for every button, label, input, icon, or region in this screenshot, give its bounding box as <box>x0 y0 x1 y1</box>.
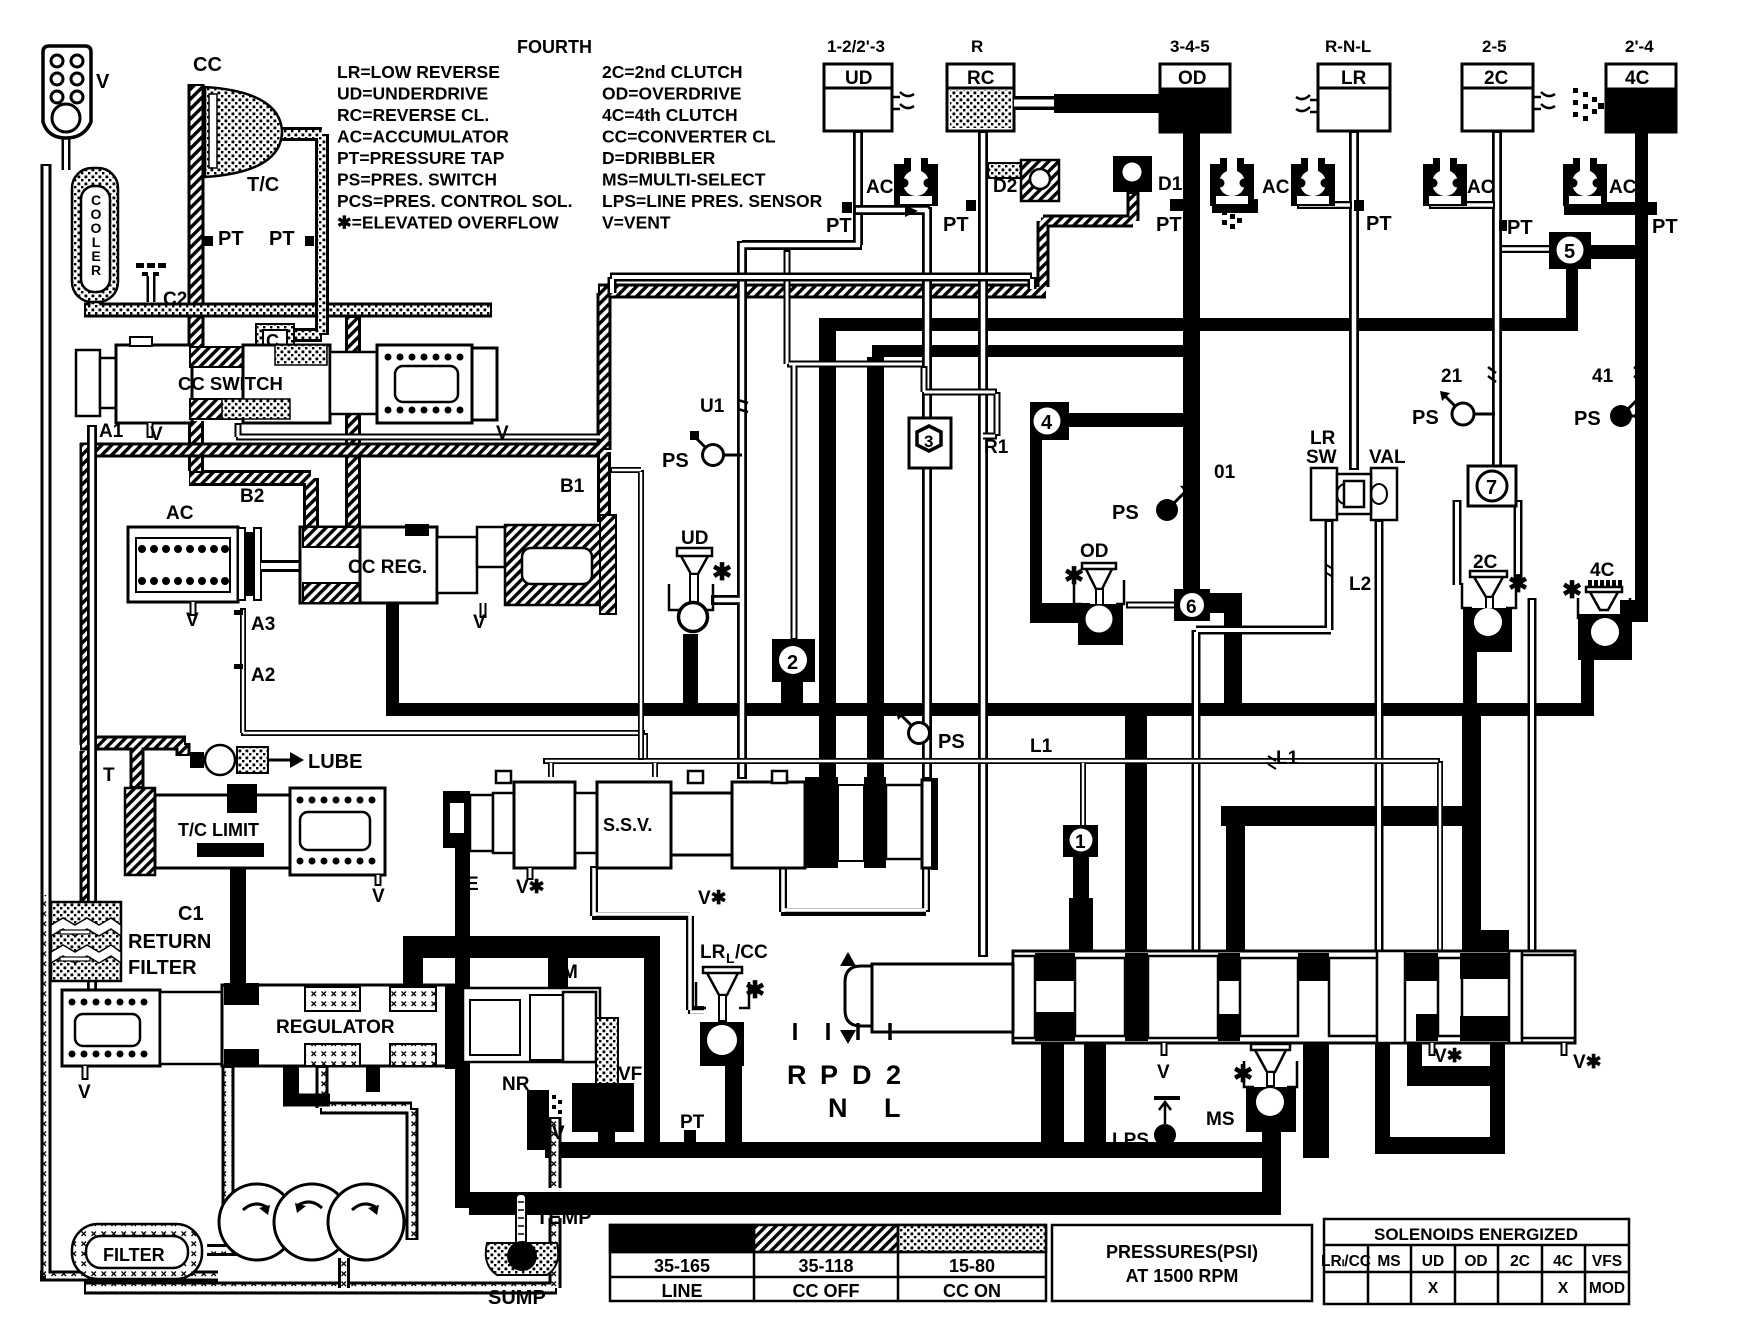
solenoid MS <box>1206 1044 1297 1132</box>
svg-text:LUBE: LUBE <box>308 751 362 773</box>
torque converter dome <box>193 54 314 250</box>
wire CC SWITCH bottom port line <box>236 423 600 437</box>
legend column 1 <box>337 62 572 233</box>
wire 2C clutch line <box>1492 131 1502 470</box>
wire 7 loop pipes <box>1457 500 1518 585</box>
spool chamber walls <box>1013 951 1575 1043</box>
wire UD solenoid drop <box>683 634 698 706</box>
svg-text:CC SWITCH: CC SWITCH <box>178 373 283 394</box>
svg-text:PT: PT <box>218 228 244 250</box>
svg-text:V=VENT: V=VENT <box>602 213 671 233</box>
svg-text:PCS: PCS <box>578 1099 617 1120</box>
wire 4 line down to OD solenoid <box>1030 436 1042 616</box>
wire bus D main line <box>386 703 1594 716</box>
svg-text:REGULATOR: REGULATOR <box>276 1017 395 1038</box>
wire 4C AC shelf <box>1564 202 1657 215</box>
wire M line <box>403 936 660 958</box>
accumulator AC (2C) <box>1423 158 1467 206</box>
svg-text:2C: 2C <box>1484 68 1509 89</box>
wire C2 speckled line <box>84 294 492 310</box>
svg-text:R-N-L: R-N-L <box>1325 37 1371 56</box>
wire bus B horizontal <box>819 318 1578 331</box>
wire bus E horizontal <box>1221 806 1481 826</box>
svg-text:MS: MS <box>1377 1253 1400 1270</box>
pressures table <box>610 1225 1312 1301</box>
svg-text:SW: SW <box>1306 447 1337 468</box>
svg-text:/CC: /CC <box>735 942 768 963</box>
svg-text:V✱: V✱ <box>516 877 545 898</box>
bottom ports <box>1164 1043 1564 1056</box>
svg-text:D2: D2 <box>993 176 1017 197</box>
rod <box>845 966 1013 1026</box>
svg-text:2C=2nd CLUTCH: 2C=2nd CLUTCH <box>602 62 743 82</box>
wire 2C solenoid drop to bus D <box>1463 650 1477 706</box>
wire PT tick on bottom bus <box>684 1130 696 1142</box>
node 1 <box>1063 825 1098 857</box>
wire LR accumulator shelf <box>1297 201 1352 209</box>
legend column 2 <box>602 62 823 233</box>
outline pipes <box>40 131 1551 1276</box>
return filter <box>51 902 211 981</box>
wire long hatched line lower left <box>80 291 1046 905</box>
svg-text:AC: AC <box>866 177 894 198</box>
valve T/C LIMIT <box>103 765 385 907</box>
wire 5 square drop to bus B <box>1566 267 1578 324</box>
clutch UD <box>824 37 914 131</box>
svg-text:L: L <box>726 950 735 966</box>
wire L1 thin line <box>543 761 1440 955</box>
solenoid PCS <box>552 1018 642 1144</box>
svg-text:FILTER: FILTER <box>128 957 197 979</box>
wire A1 line <box>87 425 97 995</box>
svg-text:T/C LIMIT: T/C LIMIT <box>178 820 259 840</box>
svg-text:RETURN: RETURN <box>128 931 211 953</box>
svg-text:PT: PT <box>1366 213 1392 235</box>
node 5 <box>1549 232 1591 269</box>
svg-text:MS=MULTI-SELECT: MS=MULTI-SELECT <box>602 170 766 190</box>
svg-text:✱: ✱ <box>712 559 732 586</box>
valve CC REG <box>261 476 616 633</box>
clutch RC <box>947 37 1014 131</box>
svg-text:3-4-5: 3-4-5 <box>1170 37 1210 56</box>
svg-text:PS: PS <box>938 731 965 753</box>
svg-text:PT=PRESSURE TAP: PT=PRESSURE TAP <box>337 148 505 168</box>
dribbler spray under OD accumulator <box>1222 210 1242 229</box>
wire bus D drop to manual valve <box>1125 712 1147 955</box>
svg-text:U1: U1 <box>700 396 725 417</box>
svg-text:FILTER: FILTER <box>103 1245 165 1265</box>
svg-text:FOURTH: FOURTH <box>517 37 592 57</box>
black lands <box>1035 953 1509 1041</box>
svg-text:B1: B1 <box>560 476 585 497</box>
switch PS 41 <box>1574 366 1644 430</box>
wire OD accumulator shelf (black) <box>1212 199 1258 213</box>
svg-text:L: L <box>884 1093 901 1123</box>
switch PS near U1 <box>662 431 742 472</box>
svg-text:AC: AC <box>1467 177 1495 198</box>
valve LR SW VAL <box>1306 428 1406 520</box>
svg-text:V: V <box>78 1082 91 1103</box>
svg-text:PT: PT <box>826 215 852 237</box>
dribbler D2 <box>993 160 1059 201</box>
svg-text:UD=UNDERDRIVE: UD=UNDERDRIVE <box>337 84 488 104</box>
wire upper mid outline run <box>610 277 1032 293</box>
hatched converter-off circuit <box>80 84 1133 905</box>
svg-text:C1: C1 <box>178 903 204 925</box>
svg-text:C2: C2 <box>163 289 187 310</box>
svg-text:LINE: LINE <box>661 1281 702 1301</box>
wire 4C solenoid riser from bus D <box>1581 648 1594 710</box>
wire bus C horizontal <box>872 345 1190 357</box>
svg-text:1-2/2'-3: 1-2/2'-3 <box>827 37 885 56</box>
svg-text:V: V <box>496 423 509 444</box>
wire 5 square link <box>1502 245 1551 253</box>
svg-text:6: 6 <box>1186 597 1197 618</box>
svg-text:OD: OD <box>1178 68 1207 89</box>
black line-pressure network <box>230 130 1657 1215</box>
pump circles <box>219 1184 404 1260</box>
svg-text:PT: PT <box>269 228 295 250</box>
svg-text:✱=ELEVATED OVERFLOW: ✱=ELEVATED OVERFLOW <box>337 213 559 233</box>
solenoid OD <box>1064 541 1124 645</box>
svg-text:R1: R1 <box>984 437 1009 458</box>
solenoid 4C <box>1562 560 1648 660</box>
svg-text:4C: 4C <box>1590 560 1615 581</box>
svg-text:V✱: V✱ <box>698 888 727 909</box>
node 7 <box>1468 466 1516 506</box>
clutch OD <box>1160 37 1230 132</box>
svg-text:S.S.V.: S.S.V. <box>603 815 652 835</box>
suction xhatch piping <box>84 1066 557 1288</box>
gear ticks <box>795 1023 890 1040</box>
pipe RC to OD <box>1014 96 1060 110</box>
wire UD clutch line <box>711 131 862 779</box>
solenoid LRL/CC <box>696 942 768 1066</box>
svg-text:UD: UD <box>845 68 872 89</box>
svg-text:35-118: 35-118 <box>798 1256 853 1276</box>
svg-text:LR: LR <box>700 942 726 963</box>
svg-text:R: R <box>91 262 101 278</box>
wire bus B left drop to SSV <box>819 318 836 793</box>
wire lower bus riser to MS <box>1262 1130 1281 1205</box>
svg-text:01: 01 <box>1214 462 1236 483</box>
clutch 2C <box>1462 37 1555 131</box>
wire manual valve bottom drops to bus <box>1041 1043 1064 1143</box>
valve REGULATOR <box>62 962 600 1103</box>
wire PCS drop <box>598 1130 615 1144</box>
valve manual selector <box>680 951 1602 1133</box>
svg-text:4C: 4C <box>1625 68 1650 89</box>
filter capsule <box>72 1224 202 1279</box>
svg-text:✱: ✱ <box>1508 571 1528 598</box>
svg-text:PS=PRES. SWITCH: PS=PRES. SWITCH <box>337 170 497 190</box>
solenoid 2C <box>1462 552 1528 652</box>
dribbler D1 <box>1113 156 1183 195</box>
svg-text:AC: AC <box>1609 177 1637 198</box>
wire A2 A3 thin line <box>241 608 645 761</box>
svg-text:LR: LR <box>1310 428 1336 449</box>
dribbler spray left of 4C <box>1573 88 1604 121</box>
wire C1 drop from T/C LIMIT <box>230 857 246 988</box>
svg-text:OD: OD <box>1464 1253 1487 1270</box>
svg-text:35-165: 35-165 <box>654 1256 710 1276</box>
svg-text:P: P <box>820 1060 838 1090</box>
svg-text:A2: A2 <box>251 665 275 686</box>
svg-text:21: 21 <box>1441 366 1463 387</box>
svg-text:LRₗ/CC: LRₗ/CC <box>1321 1253 1371 1270</box>
svg-text:PT: PT <box>943 214 969 236</box>
accumulator AC (4C) <box>1563 158 1607 206</box>
wire upper bottom bus <box>545 1142 1281 1158</box>
svg-text:V✱: V✱ <box>1573 1052 1602 1073</box>
svg-text:UD: UD <box>1422 1253 1444 1270</box>
accumulator AC (LR) <box>1291 158 1335 206</box>
node 4 <box>1030 402 1069 440</box>
svg-text:2C: 2C <box>1510 1253 1530 1270</box>
vent accumulator top left <box>43 46 110 170</box>
svg-text:SUMP: SUMP <box>488 1287 546 1309</box>
svg-text:TEMP: TEMP <box>536 1207 592 1229</box>
arrow on UD accumulator branch <box>905 205 918 217</box>
svg-text:L1: L1 <box>1276 748 1299 769</box>
wire manual valve right vent loop <box>1375 1037 1390 1149</box>
node RC to D2 connector <box>988 163 1023 178</box>
wire bus E left drop to manual valve <box>1226 820 1245 955</box>
wire LRL/CC solenoid drop <box>725 1044 742 1156</box>
svg-text:PS: PS <box>1574 408 1601 430</box>
svg-text:PT: PT <box>680 1112 705 1133</box>
svg-text:PRESSURES(PSI): PRESSURES(PSI) <box>1106 1242 1258 1262</box>
accumulator AC (UD) <box>894 158 938 206</box>
svg-text:2: 2 <box>787 652 798 674</box>
svg-text:L2: L2 <box>1349 574 1371 595</box>
svg-text:SOLENOIDS ENERGIZED: SOLENOIDS ENERGIZED <box>1374 1225 1578 1244</box>
wire bus C left drop to SSV <box>867 357 884 789</box>
wire LR SW VAL right drop <box>1375 520 1384 957</box>
svg-text:PS: PS <box>1412 407 1439 429</box>
wire L2 pipe <box>1196 520 1331 957</box>
wire CC hatched bar <box>188 84 205 347</box>
svg-text:PCS=PRES. CONTROL SOL.: PCS=PRES. CONTROL SOL. <box>337 191 572 211</box>
valve CC SWITCH <box>76 337 509 445</box>
wire lower suction bus <box>469 1192 1281 1215</box>
wire D2 dribbler hatched drop and D1 link <box>1043 192 1133 287</box>
wire hatched bar to CC REG <box>345 316 361 532</box>
svg-text:A3: A3 <box>251 614 275 635</box>
svg-text:V: V <box>1157 1062 1170 1083</box>
switch PS 21 <box>1412 366 1496 429</box>
svg-text:VF: VF <box>618 1064 642 1085</box>
svg-text:V: V <box>473 612 486 633</box>
svg-text:LPS=LINE PRES. SENSOR: LPS=LINE PRES. SENSOR <box>602 191 823 211</box>
svg-text:D: D <box>852 1060 872 1090</box>
sump and temp <box>486 1194 592 1309</box>
svg-text:R: R <box>971 37 983 56</box>
switch PS 01 <box>1112 485 1190 524</box>
PT labels top row <box>826 200 1678 239</box>
svg-text:LPS: LPS <box>1112 1130 1149 1151</box>
svg-text:7: 7 <box>1486 477 1497 499</box>
svg-text:LR: LR <box>1341 68 1367 89</box>
svg-text:PS: PS <box>662 450 689 472</box>
wire UD accumulator branch <box>854 207 930 779</box>
svg-text:3: 3 <box>924 432 933 451</box>
wire 2C solenoid outline drop <box>1528 598 1537 957</box>
svg-text:RC=REVERSE CL.: RC=REVERSE CL. <box>337 105 489 125</box>
svg-text:1: 1 <box>1075 832 1086 853</box>
svg-text:CC=CONVERTER CL: CC=CONVERTER CL <box>602 127 776 147</box>
svg-text:AC: AC <box>166 503 194 524</box>
svg-text:VAL: VAL <box>1369 447 1406 468</box>
svg-text:D=DRIBBLER: D=DRIBBLER <box>602 148 716 168</box>
wire CC REG drop to bus D <box>379 593 405 604</box>
wire OD clutch line down <box>1183 130 1200 591</box>
cooler <box>72 168 118 302</box>
svg-text:PT: PT <box>1507 217 1533 239</box>
speckled converter-on circuit <box>84 134 492 335</box>
wire manual valve bottom L <box>1407 1043 1422 1086</box>
svg-text:VFS: VFS <box>1592 1253 1622 1270</box>
svg-text:2'-4: 2'-4 <box>1625 37 1654 56</box>
svg-text:V: V <box>552 1123 565 1144</box>
svg-text:4C=4th CLUTCH: 4C=4th CLUTCH <box>602 105 738 125</box>
svg-text:NR: NR <box>502 1074 530 1095</box>
wire B1 hatched riser <box>597 452 611 522</box>
wire RC clutch line <box>978 131 988 957</box>
svg-text:15-80: 15-80 <box>949 1256 995 1276</box>
svg-text:CC OFF: CC OFF <box>793 1281 860 1301</box>
svg-text:M: M <box>562 962 578 983</box>
svg-text:CC: CC <box>193 54 222 76</box>
svg-text:UD: UD <box>681 528 708 549</box>
wire E drop from SSV to lower bus <box>455 848 470 1208</box>
wire OD solenoid to 6 link <box>1126 602 1176 609</box>
svg-text:N: N <box>828 1093 848 1123</box>
clutch 4C <box>1606 37 1676 132</box>
svg-text:V: V <box>372 886 385 907</box>
wire bus E right riser to bus D <box>1462 714 1481 955</box>
svg-text:RC: RC <box>967 68 995 89</box>
svg-text:PT: PT <box>1156 214 1182 236</box>
svg-text:4C: 4C <box>1553 1253 1573 1270</box>
solenoids energized table <box>1324 1219 1629 1304</box>
svg-text:5: 5 <box>1564 241 1575 263</box>
svg-text:MOD: MOD <box>1589 1280 1625 1297</box>
svg-text:L1: L1 <box>1030 736 1053 757</box>
node 2 <box>772 639 815 682</box>
svg-text:41: 41 <box>1592 366 1614 387</box>
wire square 2 feed <box>610 470 641 760</box>
svg-text:D1: D1 <box>1158 174 1183 195</box>
svg-text:OD: OD <box>1080 541 1109 562</box>
clutch LR <box>1296 37 1390 131</box>
wire CC bar below switch to B2 <box>189 421 311 532</box>
wire regulator right drop <box>527 1090 549 1150</box>
wire T/C loop pipe <box>258 134 322 335</box>
accumulator AC (OD) <box>1210 158 1254 206</box>
valve S.S.V. <box>443 777 938 1012</box>
svg-text:AC=ACCUMULATOR: AC=ACCUMULATOR <box>337 127 509 147</box>
svg-text:OD=OVERDRIVE: OD=OVERDRIVE <box>602 84 742 104</box>
svg-text:4: 4 <box>1041 412 1053 434</box>
node C connector <box>256 324 294 362</box>
wire 2 square drop <box>781 680 803 706</box>
switch PS near L1 <box>896 710 965 753</box>
vent C2 <box>136 263 187 310</box>
wire 2C accumulator shelf <box>1429 201 1495 209</box>
svg-text:CC REG.: CC REG. <box>348 557 427 578</box>
svg-text:PS: PS <box>1112 502 1139 524</box>
svg-text:E: E <box>466 874 479 895</box>
wire 4C clutch line down <box>1635 130 1648 610</box>
svg-text:T: T <box>103 765 115 786</box>
svg-text:AT 1500 RPM: AT 1500 RPM <box>1126 1266 1239 1286</box>
wire LR clutch line <box>1349 131 1359 470</box>
svg-text:X: X <box>1428 1280 1439 1297</box>
lube circuit <box>190 745 362 775</box>
svg-text:R: R <box>787 1060 807 1090</box>
svg-text:V: V <box>186 610 199 631</box>
svg-text:2: 2 <box>886 1060 901 1090</box>
svg-text:T/C: T/C <box>247 174 279 196</box>
wire far left return pipe <box>40 164 218 1276</box>
svg-text:LR=LOW REVERSE: LR=LOW REVERSE <box>337 62 500 82</box>
svg-text:2-5: 2-5 <box>1482 37 1507 56</box>
wire 4 square link to OD line <box>1069 413 1188 427</box>
svg-text:PT: PT <box>1652 216 1678 238</box>
svg-text:V: V <box>150 424 163 445</box>
svg-text:V: V <box>96 71 110 93</box>
svg-text:MS: MS <box>1206 1109 1235 1130</box>
sensor LPS <box>1112 1096 1180 1151</box>
wire 5 to 4C link <box>1591 245 1636 259</box>
wire 6 square link to bus D <box>1210 593 1242 613</box>
svg-text:B2: B2 <box>240 486 264 507</box>
wire labels <box>700 396 1371 769</box>
svg-text:CC ON: CC ON <box>943 1281 1001 1301</box>
svg-text:AC: AC <box>1262 177 1290 198</box>
node 6 <box>1174 589 1210 621</box>
SSV top port bumps <box>496 771 787 783</box>
svg-text:X: X <box>1558 1280 1569 1297</box>
solenoid UD <box>669 528 732 632</box>
svg-text:V✱: V✱ <box>1434 1046 1463 1067</box>
svg-text:A1: A1 <box>99 421 124 442</box>
valve R1 node 3 <box>909 366 1009 468</box>
wire OD PT tick <box>1170 199 1183 211</box>
wire R1 thin branch <box>787 250 924 640</box>
wire 1 square drop to manual valve <box>1073 855 1089 905</box>
accumulator AC left <box>128 486 275 686</box>
